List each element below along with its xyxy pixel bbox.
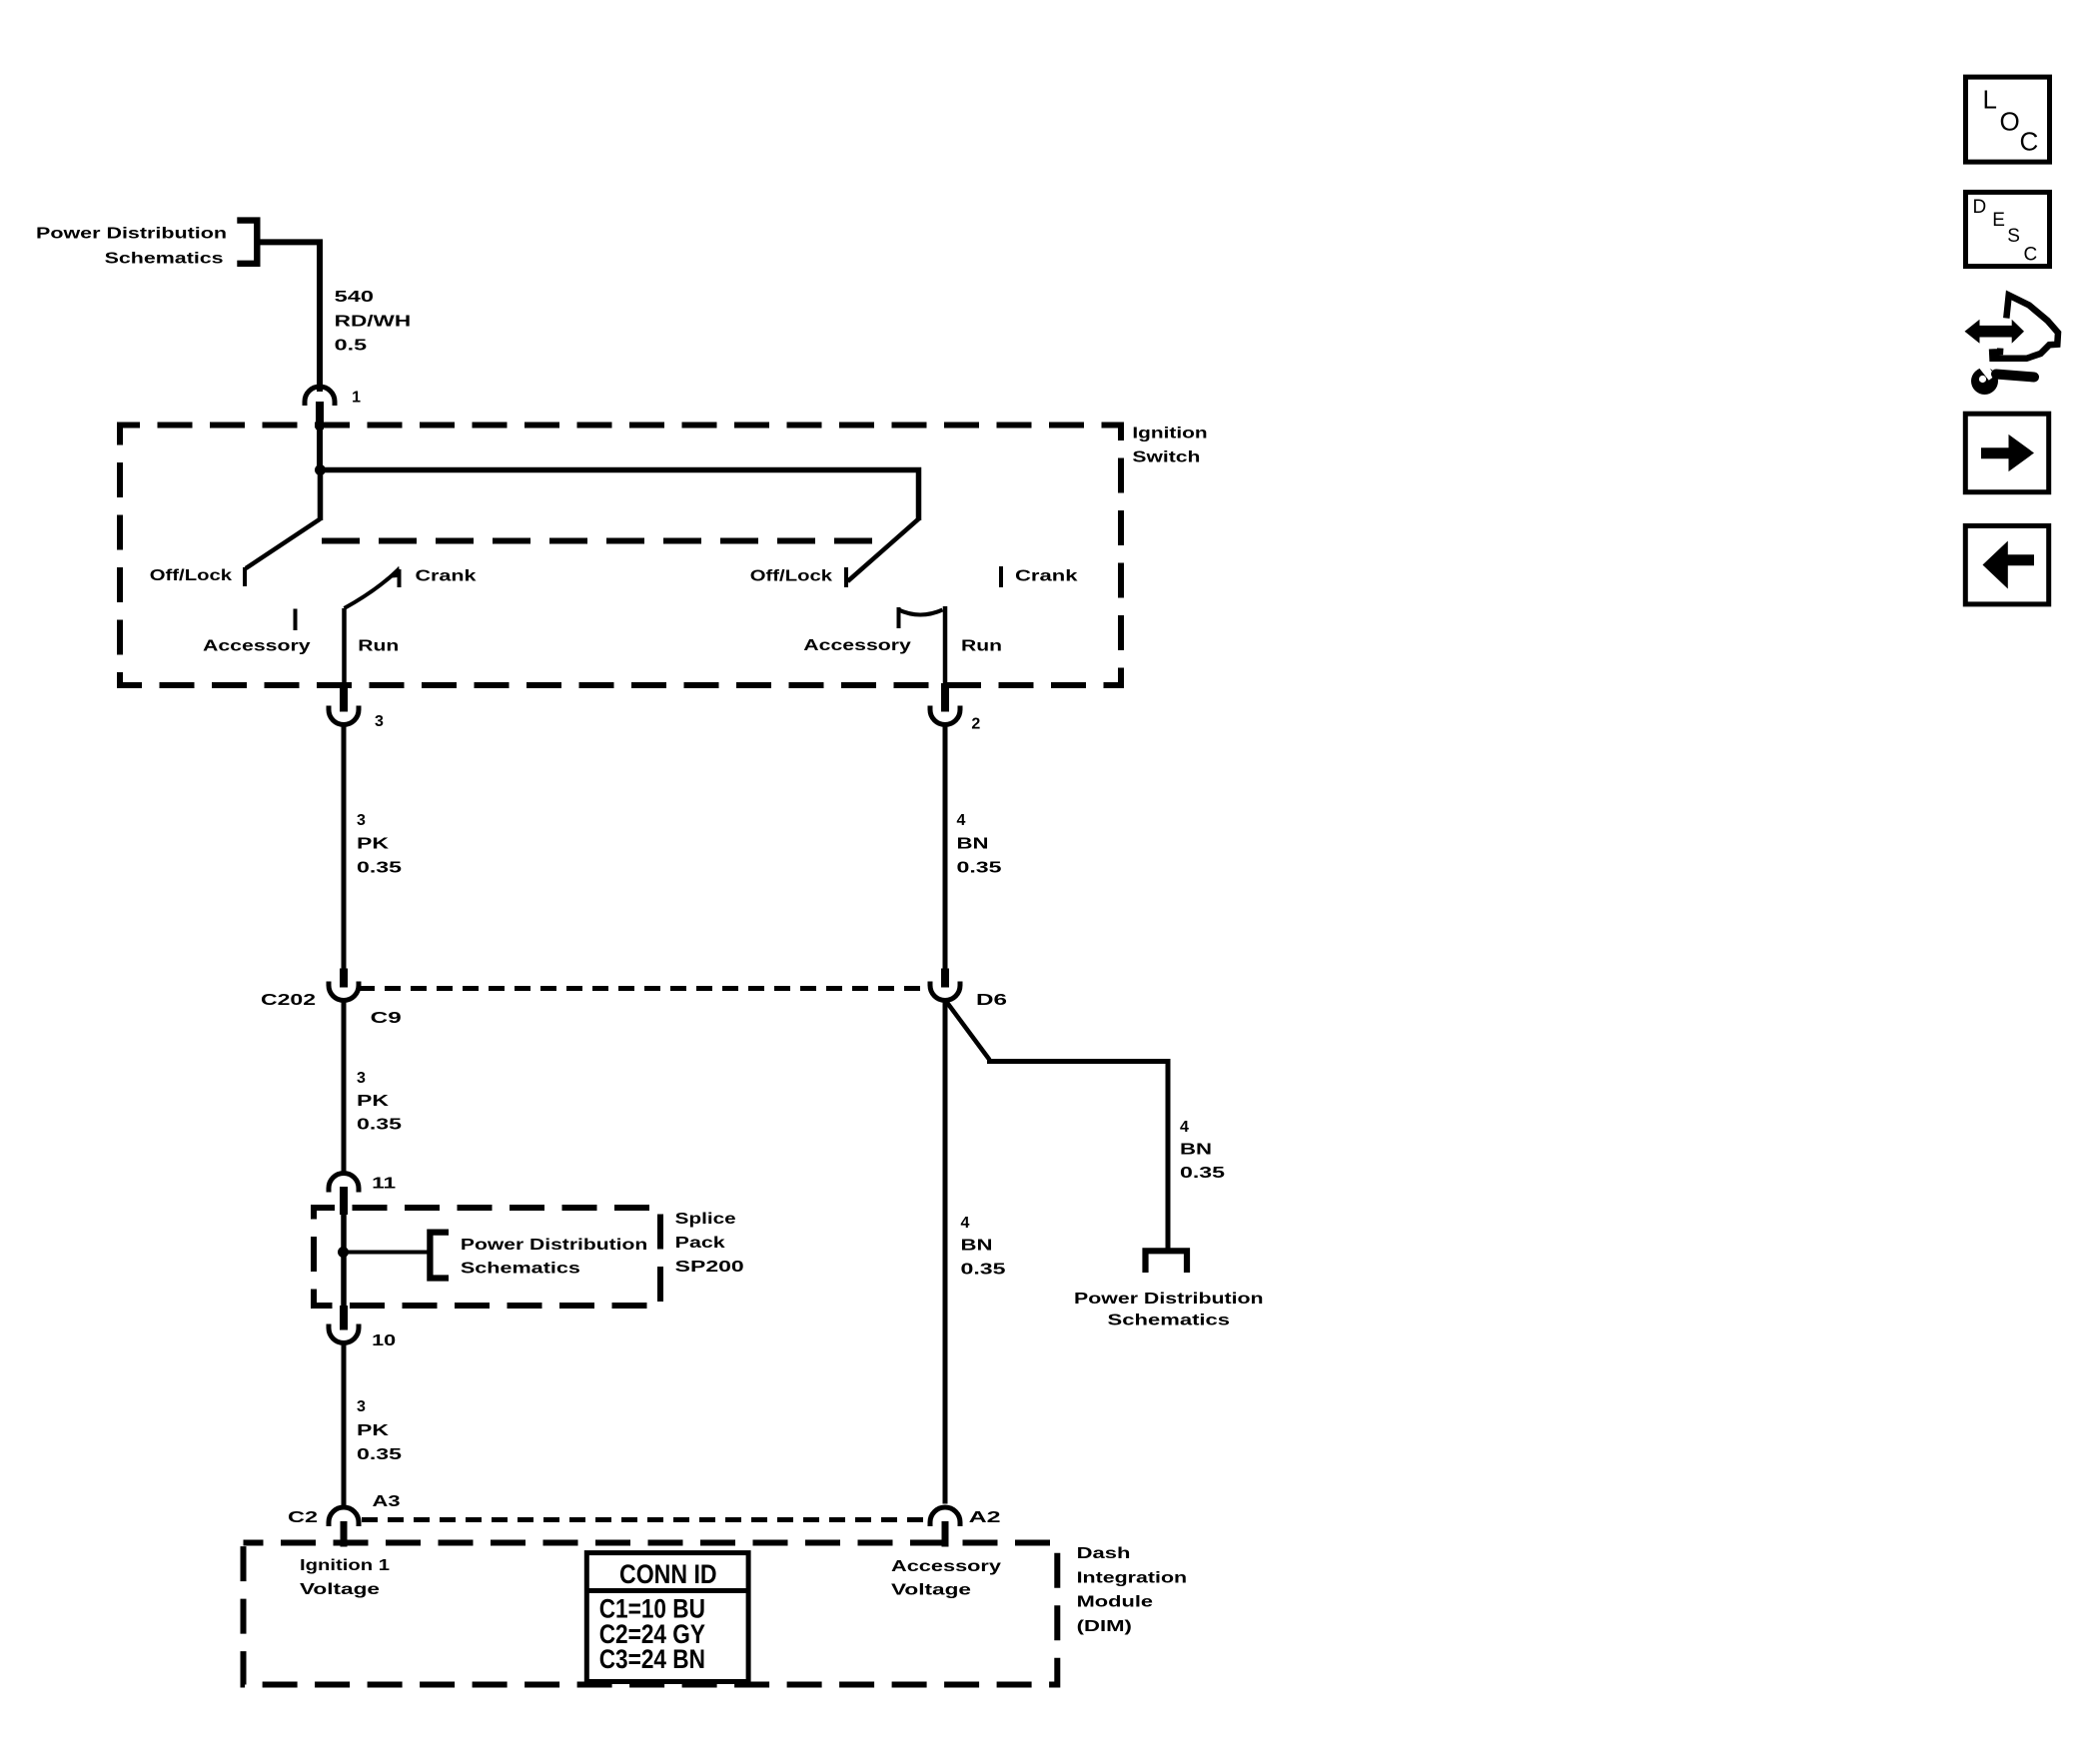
svg-text:0.35: 0.35 [961,1262,1006,1279]
svg-text:3: 3 [357,812,366,829]
svg-text:Pack: Pack [675,1235,725,1252]
svg-text:BN: BN [957,836,989,853]
svg-text:SP200: SP200 [675,1259,744,1276]
svg-text:0.5: 0.5 [335,338,368,355]
svg-text:0.35: 0.35 [357,1117,402,1134]
svg-text:BN: BN [961,1238,993,1255]
svg-text:PK: PK [357,1422,390,1439]
svg-text:Accessory: Accessory [803,637,911,654]
svg-text:L: L [1983,85,1997,115]
svg-text:0.35: 0.35 [357,860,402,877]
svg-text:BN: BN [1180,1142,1212,1159]
svg-text:D6: D6 [976,992,1007,1009]
svg-text:Off/Lock: Off/Lock [750,568,832,585]
svg-text:0.35: 0.35 [957,860,1002,877]
svg-text:Ignition: Ignition [1132,425,1207,441]
svg-text:C3=24 BN: C3=24 BN [599,1644,705,1674]
svg-text:Schematics: Schematics [105,250,224,267]
svg-text:CONN ID: CONN ID [619,1559,717,1589]
svg-text:Crank: Crank [1015,568,1078,585]
svg-text:Ignition 1: Ignition 1 [300,1557,390,1574]
svg-text:Dash: Dash [1077,1545,1131,1562]
svg-text:Power Distribution: Power Distribution [1074,1291,1264,1308]
svg-text:RD/WH: RD/WH [335,314,412,331]
svg-text:3: 3 [375,713,384,730]
svg-text:4: 4 [961,1215,970,1232]
svg-text:Crank: Crank [416,568,477,585]
svg-text:4: 4 [957,812,966,829]
svg-text:C: C [2020,126,2039,156]
svg-text:O: O [2000,107,2020,137]
svg-text:D: D [1973,197,1987,218]
svg-text:A3: A3 [373,1493,401,1510]
svg-text:Switch: Switch [1132,448,1200,465]
svg-text:Run: Run [961,638,1002,655]
svg-text:S: S [2007,226,2020,247]
svg-text:Voltage: Voltage [891,1582,971,1599]
svg-text:Power Distribution: Power Distribution [461,1237,647,1254]
svg-text:Module: Module [1077,1594,1154,1611]
svg-text:Voltage: Voltage [300,1581,380,1598]
svg-text:Integration: Integration [1077,1570,1188,1587]
svg-text:Run: Run [358,638,399,655]
svg-text:PK: PK [357,1093,390,1110]
svg-text:4: 4 [1180,1119,1189,1136]
svg-text:Accessory: Accessory [891,1558,1001,1575]
svg-text:PK: PK [357,836,390,853]
svg-text:540: 540 [335,289,374,306]
svg-text:1: 1 [352,390,361,407]
svg-text:3: 3 [357,1398,366,1415]
svg-text:Off/Lock: Off/Lock [150,567,232,584]
svg-text:C9: C9 [371,1010,402,1027]
svg-text:Power Distribution: Power Distribution [36,226,227,243]
svg-text:C2: C2 [288,1509,318,1526]
svg-text:0.35: 0.35 [357,1446,402,1463]
svg-text:10: 10 [372,1332,396,1349]
svg-text:2: 2 [971,716,980,733]
svg-text:Schematics: Schematics [461,1261,580,1278]
svg-text:C: C [2024,245,2038,266]
svg-text:Splice: Splice [675,1211,736,1228]
svg-text:E: E [1992,210,2005,231]
svg-text:3: 3 [357,1070,366,1087]
svg-text:Accessory: Accessory [203,638,311,655]
svg-text:11: 11 [372,1176,396,1193]
svg-text:(DIM): (DIM) [1077,1618,1132,1635]
svg-text:0.35: 0.35 [1180,1165,1225,1182]
svg-text:A2: A2 [969,1509,1001,1526]
svg-text:C202: C202 [261,992,316,1009]
svg-text:Schematics: Schematics [1108,1313,1231,1329]
